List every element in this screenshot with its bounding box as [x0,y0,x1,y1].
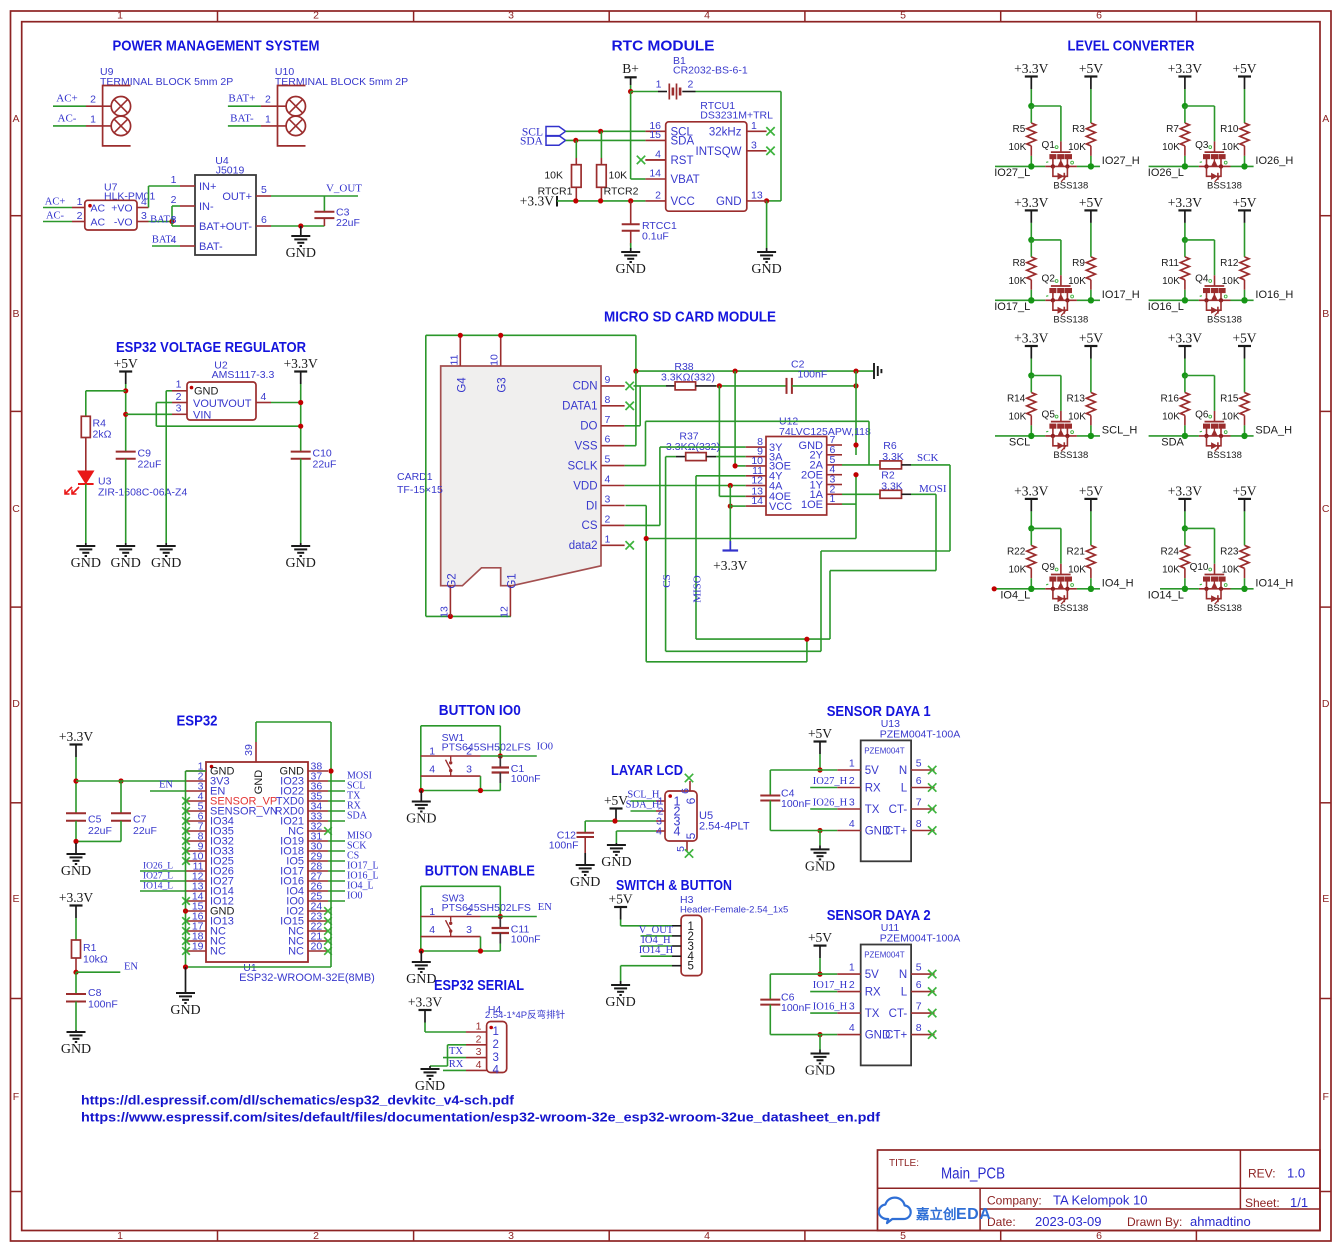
svg-text:11: 11 [448,354,460,365]
svg-text:39: 39 [243,744,255,756]
svg-text:GND: GND [616,262,646,277]
svg-text:10K: 10K [1162,142,1180,153]
svg-text:IO17_H: IO17_H [1102,289,1140,301]
svg-text:+3.3V: +3.3V [520,194,554,209]
svg-text:MOSI: MOSI [919,483,947,495]
svg-text:SENSOR DAYA 1: SENSOR DAYA 1 [827,703,931,720]
svg-text:EN: EN [124,962,138,973]
svg-text:GND: GND [71,556,101,571]
svg-text:BUTTON IO0: BUTTON IO0 [439,702,521,719]
svg-text:ZIR-1608C-06A-Z4: ZIR-1608C-06A-Z4 [98,487,187,499]
svg-text:G3: G3 [497,377,509,392]
svg-text:VSS: VSS [574,441,597,453]
svg-text:4: 4 [655,148,661,160]
svg-text:C8: C8 [88,987,102,999]
svg-text:R22: R22 [1007,546,1026,557]
svg-text:4: 4 [476,1059,482,1071]
svg-text:GND: GND [286,556,316,571]
svg-text:+5V: +5V [808,930,832,945]
svg-text:5V: 5V [865,969,879,981]
svg-text:+3.3V: +3.3V [1014,195,1048,210]
svg-text:DI: DI [586,500,598,512]
svg-text:22uF: 22uF [313,459,337,471]
svg-text:4: 4 [656,826,662,838]
svg-text:VOUT: VOUT [193,398,224,410]
svg-text:IO4_H: IO4_H [1102,577,1134,589]
svg-text:10K: 10K [1009,411,1027,422]
svg-text:G1: G1 [506,573,518,588]
svg-text:VDD: VDD [573,480,597,492]
svg-text:CARD1: CARD1 [397,471,433,483]
svg-text:5: 5 [688,961,694,973]
svg-text:100nF: 100nF [511,773,541,785]
svg-text:嘉立创: 嘉立创 [915,1206,957,1222]
svg-text:Q2: Q2 [1042,274,1056,285]
svg-text:10K: 10K [1222,411,1240,422]
svg-text:D: D [12,698,20,710]
svg-text:2kΩ: 2kΩ [93,429,112,441]
svg-text:BAT-: BAT- [199,241,223,253]
svg-text:BAT+: BAT+ [228,93,255,105]
svg-text:IN-: IN- [199,201,214,213]
svg-text:2: 2 [77,210,83,222]
svg-text:2: 2 [605,513,611,525]
svg-text:SDA: SDA [347,811,368,822]
svg-text:BUTTON ENABLE: BUTTON ENABLE [425,863,535,880]
svg-text:10K: 10K [1009,276,1027,287]
svg-text:5: 5 [675,846,687,852]
svg-text:2.54-1*4P反弯排针: 2.54-1*4P反弯排针 [485,1009,566,1021]
svg-text:GND: GND [61,1042,91,1057]
svg-text:+3.3V: +3.3V [1168,331,1202,346]
svg-text:Company:: Company: [987,1194,1042,1208]
svg-text:+5V: +5V [1079,331,1103,346]
svg-text:ESP32 SERIAL: ESP32 SERIAL [434,977,524,994]
svg-text:TF-15×15: TF-15×15 [397,484,443,496]
svg-text:Date:: Date: [987,1215,1016,1229]
svg-text:14: 14 [649,168,661,180]
svg-text:R10: R10 [1220,124,1239,135]
svg-text:C5: C5 [88,814,102,826]
svg-text:Drawn By:: Drawn By: [1127,1215,1182,1229]
svg-text:GND: GND [286,246,316,261]
svg-text:GND: GND [716,196,742,208]
svg-text:13: 13 [438,606,450,618]
svg-text:PZEM004T-100A: PZEM004T-100A [880,933,961,945]
svg-text:10K: 10K [1162,276,1180,287]
svg-text:R7: R7 [1166,124,1179,135]
svg-text:22uF: 22uF [336,217,360,229]
svg-text:1: 1 [117,10,123,22]
svg-text:data2: data2 [569,540,598,552]
svg-text:1: 1 [171,174,177,186]
svg-text:Q4: Q4 [1195,274,1209,285]
svg-text:IO16_L: IO16_L [1148,301,1184,313]
svg-text:GND: GND [805,859,835,874]
svg-text:Q3: Q3 [1195,140,1209,151]
svg-text:2: 2 [476,1033,482,1045]
svg-text:5V: 5V [865,765,879,777]
svg-text:Main_PCB: Main_PCB [941,1166,1005,1183]
svg-text:IO17_L: IO17_L [994,301,1030,313]
svg-text:SCL_H: SCL_H [1102,424,1138,436]
svg-text:2: 2 [849,775,855,787]
svg-text:AC-: AC- [46,211,65,222]
svg-text:D: D [1322,698,1330,710]
svg-text:TX: TX [865,1008,880,1020]
svg-text:DS3231M+TRL: DS3231M+TRL [700,110,773,122]
svg-text:LAYAR LCD: LAYAR LCD [611,762,683,779]
svg-text:3: 3 [176,403,182,415]
svg-text:AC: AC [91,216,106,228]
svg-text:5: 5 [261,184,267,196]
svg-text:E: E [12,893,19,905]
svg-text:+3.3V: +3.3V [1168,61,1202,76]
svg-text:3: 3 [476,1046,482,1058]
svg-text:IN+: IN+ [199,181,216,193]
svg-text:12: 12 [498,606,510,618]
svg-text:IO16_H: IO16_H [1255,289,1293,301]
svg-text:100nF: 100nF [511,934,541,946]
svg-text:4: 4 [429,763,435,775]
svg-text:IO4_L: IO4_L [1000,589,1030,601]
svg-text:5: 5 [916,962,922,974]
svg-text:CT-: CT- [889,1008,908,1020]
svg-text:OUT+: OUT+ [222,191,252,203]
svg-text:EN: EN [538,902,552,913]
svg-text:BSS138: BSS138 [1207,180,1242,191]
svg-text:4: 4 [171,234,177,246]
svg-text:CS: CS [661,574,673,587]
svg-text:NC: NC [210,946,226,958]
svg-text:N: N [899,765,907,777]
svg-text:CT-: CT- [889,804,908,816]
svg-text:ESP32-WROOM-32E(8MB): ESP32-WROOM-32E(8MB) [239,972,375,984]
svg-text:SENSOR DAYA 2: SENSOR DAYA 2 [827,907,931,924]
svg-text:1.0: 1.0 [1287,1166,1305,1181]
svg-text:4: 4 [429,924,435,936]
svg-text:10K: 10K [1222,564,1240,575]
svg-text:A: A [1322,113,1329,125]
svg-text:R14: R14 [1007,393,1026,404]
svg-text:3: 3 [751,139,757,151]
svg-text:2: 2 [313,10,319,22]
svg-text:1: 1 [605,533,611,545]
svg-text:1: 1 [90,113,96,125]
svg-text:1/1: 1/1 [1290,1195,1308,1210]
svg-text:IO26_H: IO26_H [1255,155,1293,167]
svg-text:10K: 10K [1162,564,1180,575]
svg-text:R15: R15 [1220,393,1239,404]
svg-text:TA Kelompok 10: TA Kelompok 10 [1053,1193,1147,1208]
svg-text:4: 4 [493,1065,500,1077]
svg-text:B: B [1322,308,1329,320]
svg-text:TX: TX [865,804,880,816]
svg-text:5: 5 [900,1230,906,1242]
svg-text:3: 3 [171,214,177,226]
svg-text:10K: 10K [1009,564,1027,575]
svg-text:SCLK: SCLK [567,460,597,472]
svg-text:GND: GND [61,864,91,879]
svg-text:GND: GND [194,385,219,397]
svg-text:1: 1 [849,758,855,770]
svg-text:EDA: EDA [956,1206,991,1223]
svg-text:1: 1 [476,1021,482,1033]
svg-text:2: 2 [849,979,855,991]
svg-text:4: 4 [141,196,147,208]
svg-text:2: 2 [655,189,661,201]
svg-text:RTCR2: RTCR2 [604,186,639,198]
svg-text:+5V: +5V [1232,331,1256,346]
svg-text:AC: AC [91,202,106,214]
svg-text:2.54-4PLT: 2.54-4PLT [699,821,750,833]
svg-text:Q6: Q6 [1195,409,1209,420]
svg-text:10K: 10K [1068,142,1086,153]
svg-text:CT+: CT+ [885,826,907,838]
svg-text:GND: GND [570,875,600,890]
svg-text:+5V: +5V [1232,483,1256,498]
svg-text:R1: R1 [83,942,97,954]
svg-text:1: 1 [265,113,271,125]
svg-text:10K: 10K [609,170,628,182]
svg-text:+3.3V: +3.3V [408,995,442,1010]
svg-text:3: 3 [508,1230,514,1242]
svg-text:RX: RX [865,987,881,999]
svg-text:GND: GND [111,556,141,571]
svg-text:R12: R12 [1220,258,1239,269]
svg-text:IO27_L: IO27_L [994,167,1030,179]
svg-text:VIN: VIN [193,409,211,421]
svg-text:Header-Female-2.54_1x5: Header-Female-2.54_1x5 [680,905,788,916]
svg-text:PTS645SH502LFS: PTS645SH502LFS [442,902,531,914]
svg-text:DO: DO [580,421,597,433]
svg-text:REV:: REV: [1248,1167,1276,1181]
svg-text:13: 13 [751,189,763,201]
svg-text:100nF: 100nF [88,999,118,1011]
svg-text:6: 6 [916,775,922,787]
svg-text:IO0: IO0 [537,742,553,753]
svg-text:BAT+: BAT+ [199,221,226,233]
svg-text:20: 20 [311,941,323,953]
svg-text:Sheet:: Sheet: [1245,1196,1280,1210]
svg-text:INTSQW: INTSQW [696,146,742,158]
svg-text:IO16_H: IO16_H [813,1002,848,1013]
svg-text:IO26_L: IO26_L [143,862,173,872]
svg-text:1: 1 [493,1026,499,1038]
svg-text:RX: RX [449,1059,464,1070]
svg-text:100nF: 100nF [781,1002,811,1014]
svg-text:IO0: IO0 [347,891,363,902]
svg-text:ahmadtino: ahmadtino [1190,1214,1251,1229]
svg-text:N: N [899,969,907,981]
svg-text:22uF: 22uF [138,459,162,471]
svg-text:+3.3V: +3.3V [59,729,93,744]
svg-text:6: 6 [261,214,267,226]
svg-text:4: 4 [674,825,681,839]
svg-text:100nF: 100nF [781,798,811,810]
svg-text:5: 5 [916,758,922,770]
svg-text:GND: GND [751,262,781,277]
svg-text:RX: RX [865,783,881,795]
svg-text:IO26_H: IO26_H [813,798,848,809]
svg-text:EN: EN [159,780,173,791]
svg-text:LEVEL CONVERTER: LEVEL CONVERTER [1068,38,1195,55]
svg-text:10K: 10K [1068,564,1086,575]
svg-text:BSS138: BSS138 [1207,450,1242,461]
svg-text:+5V: +5V [609,892,633,907]
svg-text:V_OUT: V_OUT [326,183,362,195]
svg-text:2: 2 [493,1039,499,1051]
svg-text:https://www.espressif.com/site: https://www.espressif.com/sites/default/… [81,1109,881,1124]
svg-text:2: 2 [171,194,177,206]
svg-text:+3.3V: +3.3V [59,890,93,905]
svg-text:BSS138: BSS138 [1053,603,1088,614]
svg-text:2023-03-09: 2023-03-09 [1035,1214,1102,1229]
svg-text:3: 3 [508,10,514,22]
svg-text:AC-: AC- [58,112,77,124]
svg-text:6: 6 [1096,10,1102,22]
svg-text:6: 6 [605,434,611,446]
svg-text:6: 6 [1096,1230,1102,1242]
svg-text:2: 2 [688,79,694,91]
svg-text:19: 19 [192,941,204,953]
svg-text:R24: R24 [1161,546,1180,557]
svg-text:GND: GND [605,995,635,1010]
svg-text:PTS645SH502LFS: PTS645SH502LFS [442,742,531,754]
svg-text:B: B [12,308,19,320]
svg-text:PZEM004T: PZEM004T [864,951,905,960]
svg-text:ESP32: ESP32 [177,713,218,730]
svg-text:+5V: +5V [1079,61,1103,76]
svg-text:7: 7 [916,797,922,809]
svg-text:+VO: +VO [111,202,132,214]
svg-text:4: 4 [261,391,267,403]
svg-text:L: L [901,987,908,999]
svg-text:3: 3 [466,924,472,936]
svg-text:10K: 10K [1222,276,1240,287]
svg-text:1: 1 [176,379,182,391]
svg-text:5: 5 [684,832,698,839]
svg-text:R21: R21 [1067,546,1086,557]
svg-text:BSS138: BSS138 [1207,314,1242,325]
svg-text:8: 8 [916,1022,922,1034]
svg-text:1OE: 1OE [801,499,823,511]
svg-text:IO14_L: IO14_L [143,882,173,892]
svg-text:J5019: J5019 [216,165,245,177]
svg-text:4: 4 [849,1022,855,1034]
svg-text:+5V: +5V [114,356,138,371]
svg-text:C7: C7 [133,814,147,826]
svg-text:+5V: +5V [604,793,628,808]
svg-text:MICRO SD CARD MODULE: MICRO SD CARD MODULE [604,309,776,326]
svg-text:+5V: +5V [808,726,832,741]
svg-text:-VO: -VO [114,216,133,228]
svg-text:Q5: Q5 [1042,409,1056,420]
svg-text:+3.3V: +3.3V [713,558,747,573]
svg-text:1: 1 [429,746,435,758]
svg-text:6: 6 [916,979,922,991]
svg-text:8: 8 [605,394,611,406]
svg-text:F: F [1322,1091,1328,1103]
svg-text:BSS138: BSS138 [1207,603,1242,614]
svg-text:SDA_H: SDA_H [1255,424,1292,436]
svg-text:3: 3 [466,763,472,775]
svg-text:1: 1 [429,906,435,918]
svg-text:7: 7 [916,1001,922,1013]
svg-text:+3.3V: +3.3V [1014,61,1048,76]
svg-text:DATA1: DATA1 [562,401,597,413]
svg-text:NC: NC [288,946,304,958]
svg-text:BAT-: BAT- [230,112,254,124]
svg-text:R8: R8 [1013,258,1026,269]
svg-text:R9: R9 [1072,258,1085,269]
svg-text:1: 1 [849,962,855,974]
svg-text:100nF: 100nF [549,840,579,852]
svg-text:PZEM004T: PZEM004T [864,746,905,755]
svg-text:5: 5 [900,10,906,22]
svg-text:3: 3 [141,210,147,222]
svg-text:10K: 10K [1068,411,1086,422]
svg-text:MISO: MISO [692,575,704,603]
svg-text:IO27_H: IO27_H [813,776,848,787]
svg-text:BSS138: BSS138 [1053,180,1088,191]
svg-text:POWER MANAGEMENT SYSTEM: POWER MANAGEMENT SYSTEM [113,38,320,55]
svg-text:TX: TX [449,1046,463,1057]
svg-text:IO17_H: IO17_H [813,980,848,991]
svg-text:A: A [12,113,19,125]
svg-text:22uF: 22uF [88,825,112,837]
svg-text:Q10: Q10 [1190,562,1209,573]
svg-text:+5V: +5V [1079,195,1103,210]
svg-text:R23: R23 [1220,546,1239,557]
svg-text:GND: GND [805,1064,835,1079]
svg-text:CT+: CT+ [885,1030,907,1042]
svg-text:0.1uF: 0.1uF [642,231,669,243]
svg-text:IO26_L: IO26_L [1148,167,1184,179]
svg-text:10K: 10K [1162,411,1180,422]
svg-text:8: 8 [916,818,922,830]
svg-text:4: 4 [704,1230,710,1242]
svg-text:7: 7 [605,414,611,426]
svg-text:10K: 10K [544,170,563,182]
svg-text:4: 4 [704,10,710,22]
svg-text:1: 1 [117,1230,123,1242]
svg-text:BSS138: BSS138 [1053,450,1088,461]
svg-text:10: 10 [489,354,501,366]
svg-text:GND: GND [406,972,436,987]
svg-text:+5V: +5V [1232,61,1256,76]
svg-text:3: 3 [493,1052,499,1064]
svg-text:G4: G4 [456,377,468,393]
svg-text:+5V: +5V [1079,483,1103,498]
svg-text:E: E [1322,893,1329,905]
svg-text:IO14_H: IO14_H [1255,577,1293,589]
svg-text:9: 9 [605,374,611,386]
svg-text:6: 6 [680,788,692,794]
svg-text:SDA: SDA [520,135,544,147]
svg-text:10K: 10K [1222,142,1240,153]
svg-text:L: L [901,783,908,795]
svg-text:F: F [13,1091,19,1103]
svg-text:4: 4 [605,474,611,486]
svg-text:Q1: Q1 [1042,140,1056,151]
svg-text:C: C [1322,503,1330,515]
svg-text:2: 2 [176,391,182,403]
svg-text:4: 4 [849,818,855,830]
svg-text:22uF: 22uF [133,825,157,837]
svg-text:32kHz: 32kHz [709,126,742,138]
svg-text:TITLE:: TITLE: [889,1158,919,1169]
